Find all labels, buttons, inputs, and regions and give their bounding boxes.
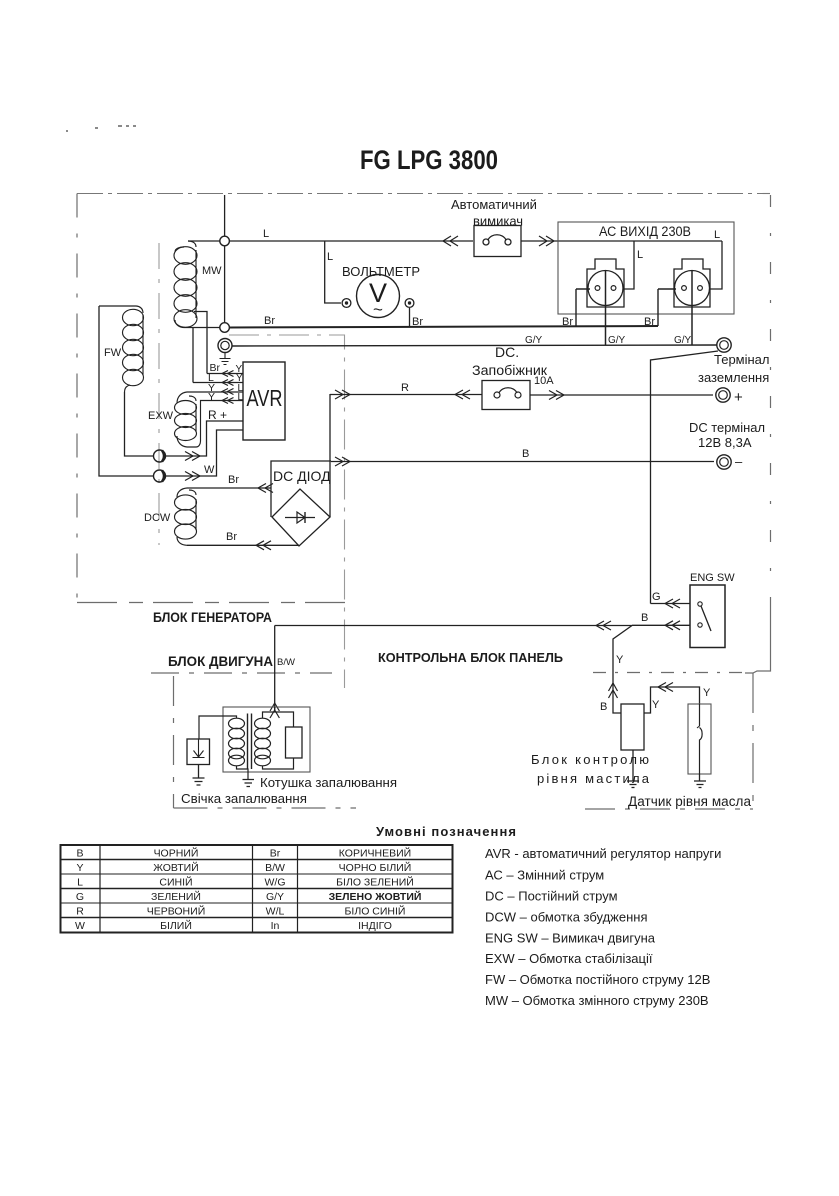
- terminal circle MW top: [220, 236, 230, 246]
- svg-text:B: B: [76, 848, 83, 860]
- svg-text:G/Y: G/Y: [266, 891, 284, 903]
- AVR input wires: [193, 371, 243, 404]
- block border: vertical divider generator/control: [229, 335, 345, 688]
- svg-text:L: L: [327, 251, 333, 263]
- svg-text:Датчик рівня масла: Датчик рівня масла: [628, 794, 751, 809]
- svg-text:12В 8,3А: 12В 8,3А: [698, 435, 752, 450]
- svg-text:W/L: W/L: [266, 906, 285, 918]
- wire brush1 to AVR R+: [166, 421, 244, 456]
- svg-text:Br: Br: [644, 316, 655, 328]
- wire R fuse to + terminal: [530, 394, 713, 396]
- DC diode bridge diamond: [272, 489, 330, 546]
- breaker contacts: [483, 239, 489, 245]
- svg-text:10A: 10A: [534, 375, 554, 387]
- svg-text:Br: Br: [264, 315, 275, 327]
- svg-text:W/G: W/G: [265, 877, 286, 889]
- svg-text:G: G: [652, 591, 661, 603]
- svg-text:ЧОРНО БІЛИЙ: ЧОРНО БІЛИЙ: [339, 861, 412, 874]
- circuit breaker box: [474, 226, 521, 257]
- svg-text:Автоматичний: Автоматичний: [451, 197, 537, 212]
- svg-text:B: B: [522, 448, 529, 460]
- svg-text:ЧЕРВОНИЙ: ЧЕРВОНИЙ: [147, 905, 206, 918]
- wire control box to oil sensor: [644, 687, 700, 713]
- svg-text:L: L: [77, 877, 83, 889]
- connector arrows on L wire: [443, 236, 458, 246]
- socket 1 outline: [587, 259, 624, 307]
- svg-text:заземлення: заземлення: [698, 370, 769, 385]
- connector arrows after breaker: [539, 236, 554, 246]
- svg-text:G/Y: G/Y: [608, 335, 626, 346]
- arrows B: [335, 457, 350, 466]
- svg-text:Умовні позначення: Умовні позначення: [376, 824, 516, 839]
- wire voltmeter right terminal down: [409, 308, 411, 327]
- block border: control panel bottom dashes: [593, 672, 745, 674]
- svg-text:Y: Y: [652, 699, 660, 711]
- control box ground stem: [632, 750, 634, 781]
- arrows R left: [335, 390, 350, 399]
- svg-text:L: L: [637, 249, 643, 261]
- DCW coil windings: [175, 488, 197, 545]
- svg-text:Y: Y: [616, 654, 624, 666]
- wire L drop to socket1: [624, 241, 634, 289]
- ground symbol control box: [627, 781, 639, 788]
- arrows Y up: [609, 683, 618, 698]
- engine block border left: [173, 676, 175, 808]
- wire R from diode to fuse: [330, 394, 482, 396]
- svg-text:W: W: [204, 464, 215, 476]
- arrows input3: [222, 389, 234, 395]
- arrows brush1 wire: [185, 452, 200, 461]
- svg-text:AVR - автоматичний регулятор: AVR - автоматичний регулятор напруги: [485, 846, 721, 861]
- svg-text:Br: Br: [228, 474, 239, 486]
- svg-text:Блок контролю: Блок контролю: [531, 752, 649, 767]
- svg-text:G/Y: G/Y: [674, 335, 692, 346]
- block border: right edge: [770, 195, 772, 606]
- arrows brush2 wire: [185, 472, 200, 481]
- svg-text:FW: FW: [104, 347, 122, 359]
- scan specks top left: [66, 125, 136, 132]
- block border: left edge: [76, 194, 78, 604]
- arrows G wire: [665, 599, 680, 608]
- socket 1 face: [588, 271, 623, 306]
- svg-text:G/Y: G/Y: [525, 335, 543, 346]
- transformer secondary winding: [255, 718, 271, 766]
- svg-text:Br: Br: [270, 848, 281, 860]
- wire MW stem to top border: [224, 195, 226, 323]
- brush 1: [154, 450, 166, 462]
- brush 2: [154, 470, 166, 482]
- wire G to ENG SW: [651, 603, 691, 605]
- svg-text:AVR: AVR: [247, 385, 283, 411]
- oil control box: [621, 704, 644, 750]
- svg-text:B: B: [641, 612, 648, 624]
- ENG SW contacts and lever: [698, 602, 702, 606]
- spark plug ground stem: [198, 765, 200, 779]
- wire diagonal to Y drop: [613, 626, 632, 714]
- svg-text:Свічка запалювання: Свічка запалювання: [181, 791, 307, 806]
- svg-text:EXW: EXW: [148, 410, 174, 422]
- engine block border top: [151, 672, 332, 674]
- svg-text:АС – Змінний струм: АС – Змінний струм: [485, 868, 604, 883]
- svg-text:DCW: DCW: [144, 512, 171, 524]
- ground terminal double circle: [717, 338, 731, 352]
- svg-text:БІЛО СИНІЙ: БІЛО СИНІЙ: [345, 905, 406, 918]
- arrows input2: [222, 380, 234, 386]
- svg-text:EXW – Обмотка стабілізації: EXW – Обмотка стабілізації: [485, 951, 653, 966]
- svg-text:СИНІЙ: СИНІЙ: [159, 876, 192, 889]
- svg-text:ЗЕЛЕНО ЖОВТИЙ: ЗЕЛЕНО ЖОВТИЙ: [329, 890, 422, 903]
- svg-text:Термінал: Термінал: [714, 352, 770, 367]
- wire ground terminal to ENG SW G: [651, 351, 719, 604]
- svg-text:ІНДІГО: ІНДІГО: [358, 920, 392, 932]
- oil sensor block border right: [752, 673, 754, 809]
- wire G/Y ground bus: [232, 345, 717, 346]
- block border: outer dashed box top edge: [77, 193, 770, 195]
- ENG SW box: [690, 585, 725, 648]
- svg-text:КОРИЧНЕВИЙ: КОРИЧНЕВИЙ: [339, 847, 411, 860]
- svg-text:+: +: [734, 389, 743, 406]
- wire Br DCW top to DC diode: [187, 487, 271, 489]
- DC diode block outline: [271, 394, 331, 517]
- svg-text:In: In: [271, 920, 280, 932]
- wire B/W down to ignition coil: [274, 626, 276, 713]
- svg-text:L: L: [238, 392, 244, 403]
- generator ground terminal double circle: [218, 339, 232, 353]
- wire voltmeter branch: [325, 241, 341, 303]
- socket 2 left pin wire: [658, 289, 676, 326]
- svg-text:КОНТРОЛЬНА БЛОК ПАНЕЛЬ: КОНТРОЛЬНА БЛОК ПАНЕЛЬ: [378, 650, 563, 665]
- arrows input1: [222, 371, 234, 377]
- FW coil windings: [99, 306, 144, 392]
- svg-text:MW: MW: [202, 265, 222, 277]
- svg-text:L: L: [263, 228, 269, 240]
- block border: generator bottom edge: [77, 602, 345, 604]
- minus terminal double circle: [717, 455, 731, 469]
- svg-text:~: ~: [373, 300, 383, 319]
- svg-text:R +: R +: [208, 408, 227, 422]
- MW tap to AVR Br input: [194, 312, 207, 374]
- rotor axis dash-dot: [158, 243, 160, 545]
- coil internal bottom wires: [237, 758, 294, 779]
- ground symbol at generator terminal: [220, 353, 231, 365]
- AC output box: [558, 222, 734, 314]
- diode symbol: [285, 517, 315, 519]
- arrows Br bottom: [256, 541, 271, 550]
- legend table text: [75, 847, 421, 933]
- svg-text:Br: Br: [226, 531, 237, 543]
- oil level sensor box: [688, 704, 711, 774]
- terminal circle MW bottom: [220, 323, 230, 333]
- wire Br bold from MW bottom: [229, 326, 658, 328]
- arrows R after fuse: [549, 391, 564, 400]
- svg-text:Y: Y: [703, 687, 711, 699]
- wire breaker to AC box: [521, 240, 558, 242]
- svg-text:БІЛИЙ: БІЛИЙ: [160, 919, 192, 932]
- FW bottom lead down to brush1: [125, 392, 154, 456]
- svg-text:B/W: B/W: [277, 657, 295, 668]
- svg-text:Котушка запалювання: Котушка запалювання: [260, 775, 397, 790]
- spark plug electrode symbol: [193, 739, 205, 758]
- AVR box: [243, 362, 285, 440]
- svg-text:ENG SW: ENG SW: [690, 572, 735, 584]
- svg-text:Y: Y: [208, 391, 215, 403]
- sensor ground stem: [699, 774, 701, 781]
- wire primary to spark plug: [199, 716, 237, 739]
- spark plug box: [187, 739, 210, 765]
- input L: [193, 382, 243, 384]
- EXW coil windings: [175, 392, 244, 447]
- transformer core: [248, 714, 252, 770]
- wire brush2 to AVR W: [166, 430, 244, 476]
- svg-text:B/W: B/W: [265, 862, 285, 874]
- ground symbol coil: [243, 780, 255, 787]
- voltmeter body: [357, 275, 400, 318]
- svg-text:DC.: DC.: [495, 344, 519, 360]
- svg-text:БІЛО ЗЕЛЕНИЙ: БІЛО ЗЕЛЕНИЙ: [336, 876, 414, 889]
- socket 1 left pin wire: [576, 289, 590, 327]
- svg-text:FW – Обмотка постійного стру: FW – Обмотка постійного струму 12В: [485, 972, 710, 987]
- svg-text:R: R: [401, 382, 409, 394]
- DC fuse box: [482, 381, 530, 410]
- fuse contacts: [494, 392, 500, 398]
- sensor switch inside: [700, 704, 703, 774]
- wire Br DCW bottom to DC diode: [187, 544, 299, 546]
- arrows input4: [222, 398, 234, 404]
- voltmeter terminals: [342, 299, 351, 308]
- oil sensor block border bottom: [585, 808, 753, 810]
- svg-text:ЧОРНИЙ: ЧОРНИЙ: [154, 847, 199, 860]
- arrows R before fuse: [455, 390, 470, 399]
- wire L inside AC box: [558, 240, 722, 242]
- ignition coil box: [223, 707, 310, 772]
- FW left lead down to brush2: [99, 306, 153, 476]
- svg-text:DC ДІОД: DC ДІОД: [273, 468, 331, 484]
- svg-text:БЛОК ДВИГУНА: БЛОК ДВИГУНА: [168, 654, 273, 669]
- MW bottom to AVR L input: [192, 328, 194, 383]
- wire L drop to socket2 right: [710, 241, 722, 289]
- ground symbol spark plug: [193, 778, 205, 785]
- arrows Br top: [258, 484, 273, 493]
- resistor in coil box: [286, 727, 303, 758]
- svg-text:Y: Y: [76, 862, 83, 874]
- svg-text:ENG SW – Вимикач двигуна: ENG SW – Вимикач двигуна: [485, 931, 656, 946]
- MW coil windings: [174, 241, 220, 328]
- input Br: [207, 373, 243, 375]
- arrows B/W up: [270, 703, 279, 718]
- svg-text:MW – Обмотка змінного струму 2: MW – Обмотка змінного струму 230В: [485, 993, 709, 1008]
- svg-text:рівня мастила: рівня мастила: [537, 771, 650, 786]
- svg-text:DC термінал: DC термінал: [689, 420, 765, 435]
- svg-text:L: L: [714, 229, 720, 241]
- socket 2 outline: [674, 259, 710, 307]
- svg-text:ЗЕЛЕНИЙ: ЗЕЛЕНИЙ: [151, 890, 201, 903]
- arrows oil sensor wire: [658, 683, 673, 692]
- svg-text:DC – Постійний струм: DC – Постійний струм: [485, 889, 618, 904]
- svg-text:АС ВИХІД 230В: АС ВИХІД 230В: [599, 224, 691, 239]
- plus terminal double circle: [716, 388, 730, 402]
- legend abbreviation list: [485, 846, 721, 1008]
- svg-text:FG LPG 3800: FG LPG 3800: [360, 145, 498, 175]
- svg-text:ВОЛЬТМЕТР: ВОЛЬТМЕТР: [342, 264, 420, 279]
- svg-text:ЖОВТИЙ: ЖОВТИЙ: [153, 861, 198, 874]
- wire B long to ENG SW: [275, 624, 690, 626]
- svg-text:Br: Br: [562, 316, 573, 328]
- svg-text:G: G: [76, 891, 84, 903]
- engine block border bottom: [174, 807, 357, 809]
- svg-text:вимикач: вимикач: [473, 214, 523, 229]
- svg-text:БЛОК ГЕНЕРАТОРА: БЛОК ГЕНЕРАТОРА: [153, 610, 272, 625]
- svg-text:W: W: [75, 920, 85, 932]
- arrows B wire mid: [596, 621, 611, 630]
- svg-text:–: –: [735, 454, 743, 469]
- wire L main from MW to breaker: [229, 240, 473, 242]
- legend table grid: [61, 845, 453, 933]
- ground symbol sensor: [694, 781, 706, 788]
- svg-text:R: R: [76, 906, 84, 918]
- svg-text:DCW – обмотка збудження: DCW – обмотка збудження: [485, 910, 648, 925]
- arrows B wire near switch: [665, 621, 680, 630]
- transformer primary winding: [229, 718, 245, 766]
- coil internal top wires: [263, 707, 294, 727]
- wire B from diode block to - terminal: [331, 461, 714, 463]
- socket 2 face: [675, 271, 710, 306]
- svg-text:B: B: [600, 701, 607, 713]
